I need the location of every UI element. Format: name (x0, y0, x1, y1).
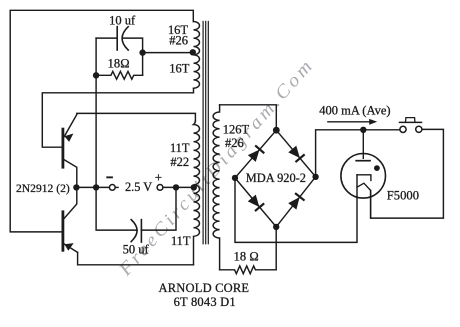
svg-text:11T: 11T (171, 234, 191, 248)
svg-text:126T: 126T (223, 123, 250, 137)
svg-text:#26: #26 (225, 136, 244, 150)
svg-text:18Ω: 18Ω (108, 56, 130, 70)
svg-text:2.5 V: 2.5 V (125, 180, 152, 194)
svg-text:#22: #22 (170, 155, 189, 169)
svg-text:10 uf: 10 uf (109, 13, 136, 27)
svg-text:400 mA (Ave): 400 mA (Ave) (319, 103, 390, 117)
svg-text:F5000: F5000 (387, 189, 419, 203)
svg-text:11T: 11T (170, 141, 190, 155)
svg-text:50 uf: 50 uf (123, 242, 150, 256)
svg-text:ARNOLD CORE: ARNOLD CORE (159, 281, 250, 295)
svg-text:18 Ω: 18 Ω (234, 250, 259, 264)
svg-text:16T: 16T (169, 62, 190, 76)
svg-text:6T 8043 D1: 6T 8043 D1 (174, 295, 236, 309)
svg-text:2N2912 (2): 2N2912 (2) (16, 182, 70, 195)
svg-text:#26: #26 (169, 33, 188, 47)
svg-text:MDA 920-2: MDA 920-2 (246, 171, 306, 185)
svg-text:+: + (155, 170, 162, 185)
